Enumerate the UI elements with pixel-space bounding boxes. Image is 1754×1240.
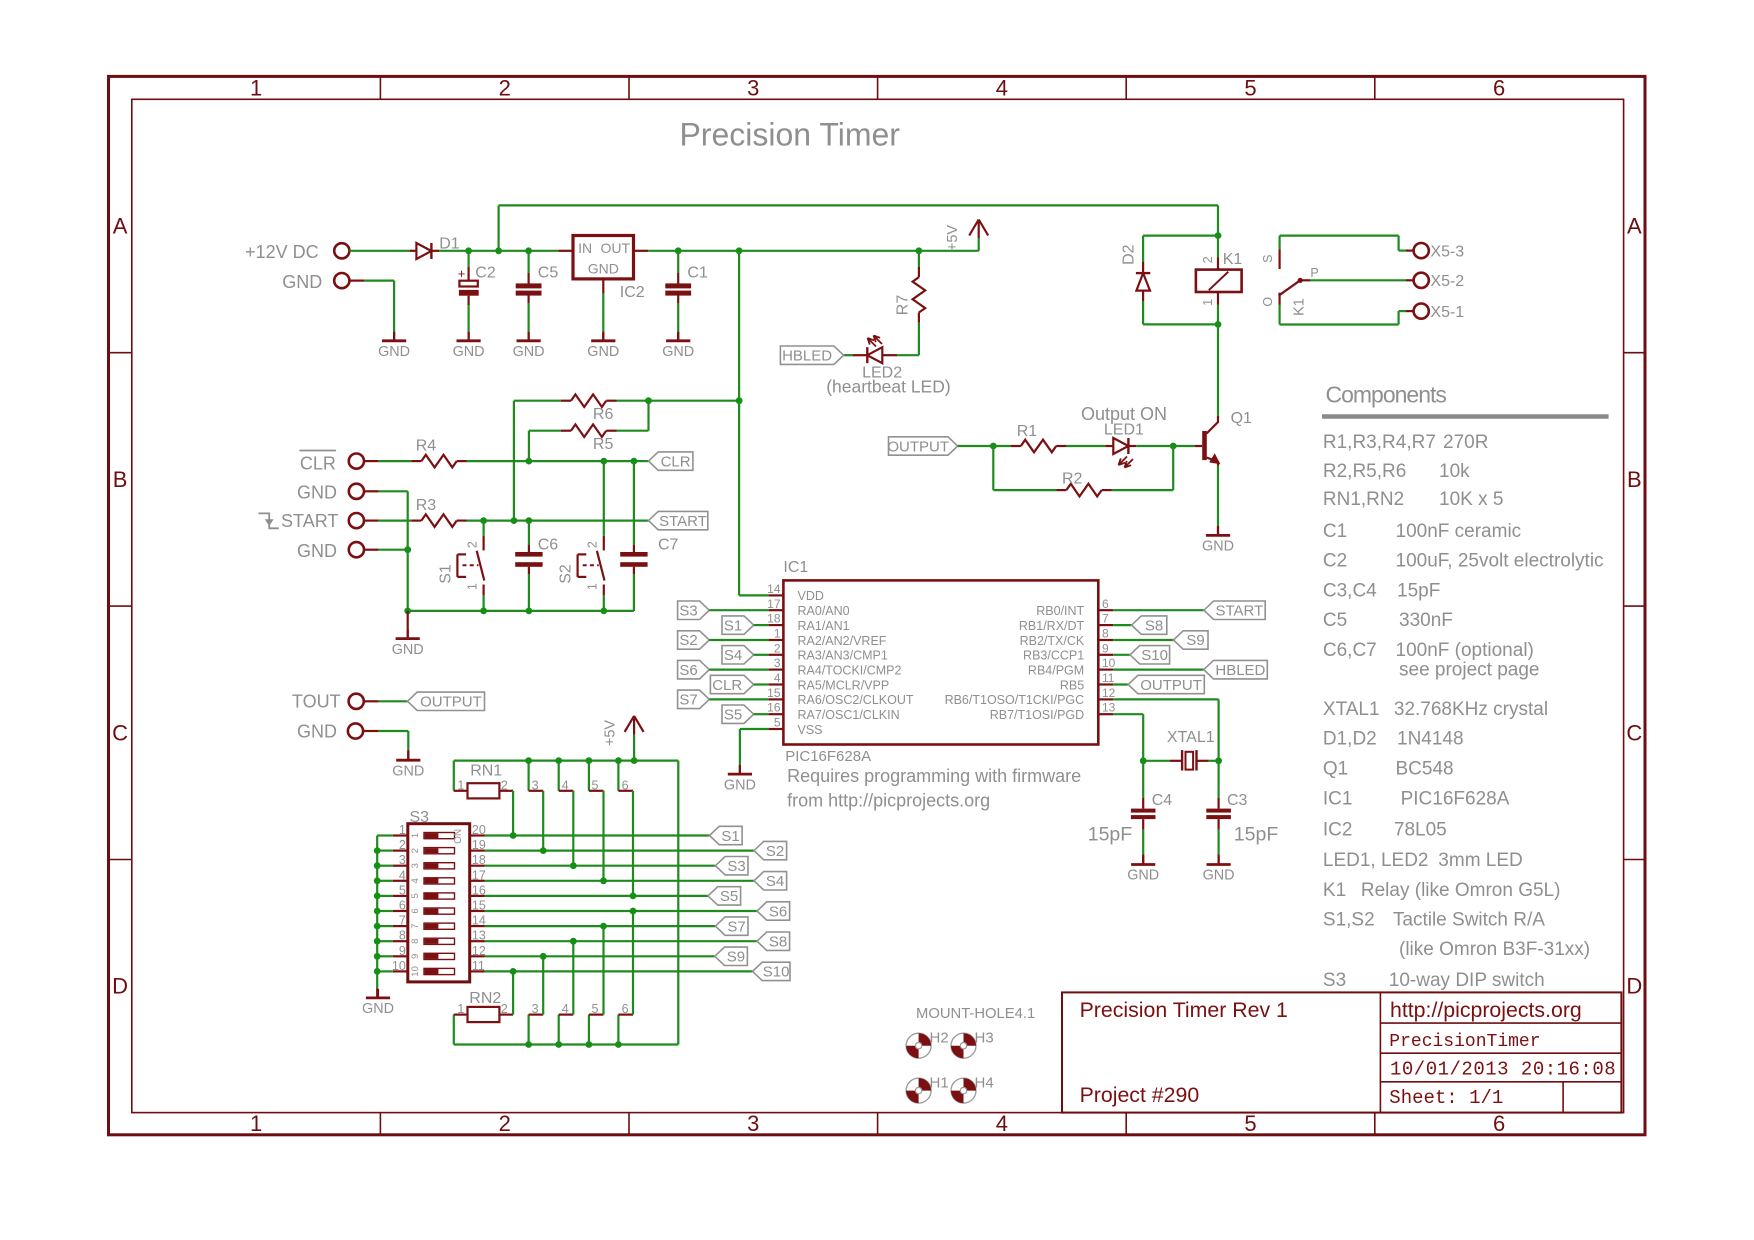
wire GND tout (363, 730, 379, 732)
components list row 78L05 (1323, 819, 1447, 840)
wire D2 loop left upper (1142, 236, 1144, 262)
switch S2 (603, 536, 605, 551)
svg-text:X5-1: X5-1 (1430, 304, 1464, 321)
components list row (like Omron B3F-31xx) (1399, 939, 1590, 960)
svg-text:CLR: CLR (712, 677, 742, 694)
net tag S3 to pin 17 (678, 601, 710, 620)
wire C7 to CLR line (633, 461, 635, 545)
svg-text:PIC16F628A: PIC16F628A (1401, 788, 1510, 809)
net tag OUTPUT at TOUT (408, 692, 485, 710)
svg-text:7: 7 (1102, 612, 1109, 626)
svg-text:C7: C7 (658, 537, 679, 554)
LED LED2 (882, 354, 897, 356)
wire CLR line (467, 460, 529, 462)
svg-text:A: A (113, 214, 128, 239)
svg-text:C2: C2 (1323, 551, 1347, 572)
svg-text:1: 1 (465, 583, 479, 590)
wire VDD into pin 14 (739, 594, 769, 596)
svg-text:S1: S1 (438, 564, 455, 584)
components list row 10K x 5 (1323, 489, 1504, 510)
svg-text:R2,R5,R6: R2,R5,R6 (1323, 461, 1406, 482)
svg-text:9: 9 (410, 954, 421, 959)
svg-text:2: 2 (501, 1002, 508, 1016)
junction RN2 pin5 column (586, 1041, 593, 1048)
pad GND input (334, 273, 349, 288)
svg-text:RB7/T1OSI/PGD: RB7/T1OSI/PGD (990, 708, 1084, 722)
resistor network RN1 (453, 761, 455, 791)
wire LED2 to tag (844, 354, 853, 356)
svg-text:S4: S4 (766, 873, 784, 890)
+5V supply arrow 1 (978, 220, 980, 239)
junction RN1 pin4 column (555, 757, 562, 764)
LED1 emission arrows (1119, 457, 1128, 466)
wire S3 row 4 to tag S4 (485, 880, 755, 882)
diode D1 (410, 250, 416, 252)
components list row 100uF, 25volt electrolytic (1323, 551, 1604, 572)
svg-text:IC1: IC1 (1323, 788, 1353, 809)
junction crystal left (1140, 757, 1147, 764)
svg-text:(like Omron B3F-31xx): (like Omron B3F-31xx) (1399, 939, 1590, 960)
svg-text:S5: S5 (724, 707, 742, 724)
wire relay to Q1 collector (1217, 324, 1219, 415)
svg-text:K1: K1 (1292, 298, 1308, 316)
net tag S8 dip (757, 932, 790, 950)
wire RN2 pin4 jog (558, 1015, 560, 1045)
components list row 10-way DIP switch (1323, 970, 1545, 991)
wire R5 right leg (647, 401, 649, 431)
svg-text:100nF (optional): 100nF (optional) (1396, 640, 1534, 661)
svg-text:START: START (1216, 603, 1264, 620)
frame row letters (112, 214, 1642, 999)
svg-text:S1,S2: S1,S2 (1323, 910, 1375, 931)
svg-text:270R: 270R (1443, 432, 1488, 453)
wire S1 to START line (483, 521, 485, 536)
svg-text:S8: S8 (769, 934, 787, 951)
svg-text:7: 7 (410, 923, 421, 928)
capacitor C3 (1217, 761, 1219, 798)
wire top +12V rail (499, 204, 1218, 206)
title block dividers (1380, 992, 1621, 1112)
svg-text:1: 1 (774, 627, 781, 641)
svg-text:C1: C1 (687, 265, 708, 282)
frame column ticks (380, 76, 1374, 1134)
net tag S10 from pin 9 (1113, 654, 1130, 656)
wire S3 row 8 to tag S8 (485, 940, 758, 942)
svg-text:GND: GND (513, 344, 545, 360)
wire S3 row 1 to tag S1 (485, 834, 710, 836)
svg-text:10-way DIP switch: 10-way DIP switch (1389, 970, 1545, 991)
svg-text:5: 5 (774, 716, 781, 730)
svg-text:RA0/AN0: RA0/AN0 (798, 604, 850, 618)
wire riser to top rail (498, 205, 500, 250)
wire GND pads to rail (364, 490, 379, 492)
svg-text:Precision Timer Rev 1: Precision Timer Rev 1 (1080, 998, 1288, 1022)
svg-text:LED1: LED1 (1104, 422, 1144, 439)
wire S2 to CLR line (603, 461, 605, 536)
svg-text:4: 4 (410, 878, 421, 883)
junction RN1 pin5 column (586, 757, 593, 764)
svg-text:S9: S9 (1186, 632, 1204, 649)
resistor R3 (364, 519, 379, 521)
svg-text:CLR: CLR (300, 454, 336, 474)
junction row S10 (510, 968, 517, 975)
svg-text:4: 4 (996, 1111, 1008, 1136)
mount hole H3 (951, 1033, 976, 1058)
ground symbol Q1 (1217, 526, 1219, 535)
svg-text:S1: S1 (721, 828, 739, 845)
GND wire from input pad (349, 280, 364, 282)
svg-text:3: 3 (747, 76, 759, 101)
wire RN2 pin5 jog (588, 1015, 590, 1045)
pad START input (349, 513, 364, 528)
relay coil K1 (1217, 236, 1219, 258)
svg-text:OUTPUT: OUTPUT (420, 694, 482, 711)
svg-text:1: 1 (410, 833, 421, 838)
IC1 right pin numbers (1102, 597, 1116, 715)
net tag S3 dip (715, 857, 748, 875)
wire S3 left bus (376, 836, 378, 989)
svg-text:2: 2 (586, 541, 600, 548)
svg-text:C2: C2 (475, 265, 496, 282)
wire contact O to X5-1 (1278, 305, 1280, 325)
svg-text:Components: Components (1326, 382, 1447, 408)
svg-text:C5: C5 (1323, 610, 1347, 631)
capacitor C2 electrolytic (468, 251, 470, 267)
svg-text:see project page: see project page (1399, 660, 1540, 681)
diode D2 (1142, 262, 1144, 273)
IC IC1 PIC16F628A body (783, 580, 1098, 744)
svg-text:S10: S10 (763, 964, 790, 981)
junction CLR C7 (631, 458, 638, 465)
svg-text:B: B (1627, 467, 1642, 492)
resistor R1 (993, 445, 1010, 447)
components list row 1N4148 (1323, 729, 1464, 750)
junction row S9 (540, 953, 547, 960)
switch S1 (483, 536, 485, 551)
svg-text:C4: C4 (1152, 792, 1173, 809)
svg-text:RB6/T1OSO/T1CKI/PGC: RB6/T1OSO/T1CKI/PGC (945, 693, 1085, 707)
svg-text:from http://picprojects.org: from http://picprojects.org (787, 791, 990, 811)
svg-text:1: 1 (250, 1111, 262, 1136)
svg-text:1: 1 (1201, 299, 1215, 306)
junction rail C6 (526, 608, 533, 615)
ground symbol IC2 (602, 332, 604, 341)
mount hole H2 (906, 1033, 931, 1058)
svg-text:H1: H1 (930, 1074, 949, 1091)
svg-text:O: O (1261, 297, 1275, 307)
svg-text:11: 11 (1102, 671, 1115, 685)
svg-text:100nF ceramic: 100nF ceramic (1396, 521, 1522, 542)
drawing frame inner border (132, 99, 1624, 1112)
wire RN1 pin4 jog (558, 761, 560, 791)
wire R1 to LED1 (1066, 445, 1105, 447)
junctions S3 left bus (374, 847, 381, 975)
svg-text:D2: D2 (1120, 244, 1137, 265)
svg-text:+12V DC: +12V DC (245, 242, 319, 262)
transistor Q1 (1195, 445, 1203, 447)
ground symbol switch rail (407, 611, 409, 637)
wire S3 row 10 to tag S10 (485, 970, 753, 972)
svg-text:RB1/RX/DT: RB1/RX/DT (1019, 619, 1085, 633)
wire top rail drop to relay (1217, 205, 1219, 235)
wire RN1 pin5 jog (588, 761, 590, 791)
svg-text:ON: ON (453, 829, 464, 844)
wire S3 row 7 to tag S7 (485, 925, 716, 927)
svg-text:IC2: IC2 (620, 284, 645, 301)
svg-text:16: 16 (767, 701, 781, 715)
resistor network RN2 (453, 1015, 455, 1045)
svg-text:R4: R4 (416, 438, 437, 455)
resistor R5 (529, 430, 561, 432)
net tag S6 dip (757, 902, 790, 920)
wire +12V D1 to C2 junction (439, 250, 469, 252)
frame column numbers (250, 76, 1505, 1137)
svg-text:1: 1 (457, 1002, 464, 1016)
components list row Tactile Switch R/A (1323, 910, 1545, 931)
svg-text:CLR: CLR (661, 453, 691, 470)
resistor R6 (514, 400, 561, 402)
svg-text:15: 15 (767, 686, 781, 700)
ground symbol C4 (1142, 856, 1144, 865)
svg-text:GND: GND (297, 722, 337, 742)
svg-text:START: START (281, 511, 338, 531)
svg-text:3: 3 (774, 656, 781, 670)
+5V supply arrow 2 (633, 734, 635, 760)
svg-text:RB5: RB5 (1060, 678, 1084, 692)
svg-text:MOUNT-HOLE4.1: MOUNT-HOLE4.1 (916, 1006, 1035, 1022)
svg-text:S7: S7 (679, 692, 697, 709)
svg-text:XTAL1: XTAL1 (1323, 699, 1380, 720)
wire RN1 pin6 jog (617, 761, 619, 791)
net tag S9 dip (715, 947, 748, 965)
svg-text:4: 4 (774, 671, 781, 685)
S3 left pin stubs (393, 836, 408, 972)
svg-text:(heartbeat LED): (heartbeat LED) (826, 377, 951, 397)
capacitor C4 (1142, 761, 1144, 798)
svg-text:18: 18 (767, 612, 781, 626)
svg-text:GND: GND (588, 261, 619, 277)
junction GND pads (404, 546, 411, 553)
junction row S8 (570, 938, 577, 945)
svg-text:10: 10 (1102, 656, 1116, 670)
wire Q1 emitter to ground (1217, 466, 1219, 527)
svg-text:X5-2: X5-2 (1430, 273, 1464, 290)
wire START line (467, 519, 484, 521)
svg-text:Requires programming with firm: Requires programming with firmware (787, 766, 1081, 786)
svg-text:S3: S3 (1323, 970, 1346, 991)
svg-text:GND: GND (392, 763, 424, 779)
junction at C5 (525, 247, 532, 254)
wire RN1 pin2 to S1 row (512, 791, 514, 836)
components list rule (1322, 414, 1609, 419)
svg-text:2: 2 (465, 541, 479, 548)
svg-text:4: 4 (996, 76, 1008, 101)
svg-text:RN2: RN2 (469, 990, 501, 1007)
wire pin 12 to crystal right (1113, 698, 1219, 700)
wire rail right drop (677, 761, 679, 1045)
ground symbol C2 (468, 332, 470, 341)
LED LED1 (1105, 445, 1113, 447)
svg-text:H3: H3 (975, 1030, 994, 1047)
title block box (1062, 992, 1621, 1112)
wire S3 row 9 to tag S9 (485, 955, 715, 957)
wire VSS to ground (740, 728, 769, 730)
wire GND start pad (364, 549, 379, 551)
svg-text:5: 5 (410, 893, 421, 898)
net tag S2 to pin 1 (678, 631, 710, 649)
junction at C2 (465, 247, 472, 254)
svg-text:3: 3 (747, 1111, 759, 1136)
svg-text:S10: S10 (1141, 647, 1168, 664)
components list row 100nF ceramic (1323, 521, 1521, 542)
svg-text:S7: S7 (727, 918, 745, 935)
svg-text:RB3/CCP1: RB3/CCP1 (1023, 649, 1084, 663)
svg-text:330nF: 330nF (1399, 610, 1453, 631)
svg-text:RA1/AN1: RA1/AN1 (798, 619, 850, 633)
components list row see project page (1399, 660, 1540, 681)
wire RN2 pin6 jog (617, 1015, 619, 1045)
net tag OUTPUT from pin 11 (1113, 683, 1132, 685)
svg-text:9: 9 (1102, 641, 1109, 655)
svg-text:C5: C5 (538, 265, 559, 282)
svg-text:2: 2 (499, 76, 511, 101)
svg-text:C1: C1 (1323, 521, 1347, 542)
svg-text:S9: S9 (727, 949, 745, 966)
wire +5V VDD riser down to IC1 (738, 251, 740, 596)
svg-text:RN1,RN2: RN1,RN2 (1323, 489, 1404, 510)
svg-text:RB0/INT: RB0/INT (1036, 604, 1084, 618)
wire R7 to LED2 (918, 323, 920, 356)
net tag S5 dip (708, 887, 741, 905)
components list row 32.768KHz crystal (1323, 699, 1548, 720)
net tag HBLED from pin 10 (1113, 668, 1204, 670)
svg-text:Sheet: 1/1: Sheet: 1/1 (1389, 1087, 1503, 1109)
svg-text:S2: S2 (558, 564, 575, 584)
capacitor C1 (677, 251, 679, 273)
svg-text:S2: S2 (766, 843, 784, 860)
svg-text:6: 6 (410, 908, 421, 913)
svg-text:RA7/OSC1/CLKIN: RA7/OSC1/CLKIN (798, 708, 900, 722)
mount hole H4 (951, 1078, 976, 1103)
relay contact arm (1279, 280, 1301, 295)
svg-text:K1: K1 (1223, 251, 1243, 268)
svg-text:1N4148: 1N4148 (1397, 729, 1464, 750)
svg-text:R1,R3,R4,R7: R1,R3,R4,R7 (1323, 432, 1436, 453)
components list row 15pF (1323, 581, 1440, 602)
svg-text:10k: 10k (1439, 461, 1470, 482)
ground symbol C3 (1217, 856, 1219, 865)
junction RN2 pin3 column (525, 1041, 532, 1048)
svg-text:BC548: BC548 (1396, 759, 1454, 780)
wire RN1 +5V rail (454, 759, 679, 761)
svg-text:2: 2 (499, 1111, 511, 1136)
svg-text:100uF, 25volt electrolytic: 100uF, 25volt electrolytic (1396, 551, 1604, 572)
svg-text:IN: IN (578, 240, 592, 256)
wire RN1 pin3 jog (527, 761, 529, 791)
net tag S4 dip (754, 872, 787, 890)
IC1 left pin numbers (767, 582, 781, 730)
svg-text:1: 1 (250, 76, 262, 101)
svg-text:C6,C7: C6,C7 (1323, 640, 1377, 661)
svg-text:12: 12 (1102, 686, 1116, 700)
wire LED1 to junction (1136, 445, 1173, 447)
junction START R6 (511, 517, 518, 524)
drawing frame outer border (109, 76, 1646, 1134)
ground symbol input (393, 332, 395, 341)
net tag S1 to pin 18 (722, 616, 754, 634)
IC2 ground pin wire (602, 279, 604, 294)
svg-text:5: 5 (1244, 76, 1256, 101)
svg-text:1: 1 (457, 778, 464, 792)
svg-text:2: 2 (774, 641, 781, 655)
svg-text:RA3/AN3/CMP1: RA3/AN3/CMP1 (798, 649, 888, 663)
wire D2 loop bottom (1143, 323, 1218, 325)
junction RN1 pin3 column (525, 757, 532, 764)
components list row 330nF (1323, 610, 1453, 631)
wire RN2 pin3 jog (527, 1015, 529, 1045)
svg-text:Precision Timer: Precision Timer (679, 117, 900, 153)
resistor R2 bypass (992, 446, 994, 490)
junction rail S1 (480, 608, 487, 615)
net tag S7 to pin 15 (678, 690, 710, 709)
wire D2 loop left lower (1142, 301, 1144, 324)
relay contact S terminal (1278, 250, 1280, 270)
svg-text:GND: GND (392, 642, 424, 658)
svg-text:17: 17 (767, 597, 781, 611)
crystal XTAL1 (1143, 760, 1170, 762)
wire OUTPUT tag to junction (958, 445, 994, 447)
svg-text:R7: R7 (894, 295, 911, 316)
svg-text:C3: C3 (1227, 792, 1248, 809)
wire contact S to X5-3 (1280, 235, 1399, 237)
RN1 pin numbers (457, 778, 628, 792)
svg-text:HBLED: HBLED (782, 348, 832, 365)
svg-text:GND: GND (378, 344, 410, 360)
svg-text:GND: GND (297, 483, 337, 503)
junction row S4 (600, 877, 607, 884)
voltage regulator IC2 78L05 (558, 250, 573, 252)
junction START S1 (480, 517, 487, 524)
net tag S8 from pin 7 (1113, 624, 1132, 626)
wire RN2 pin2 to S10 row (512, 971, 514, 1014)
junction row S6 (630, 908, 637, 915)
net tag S7 dip (715, 917, 748, 935)
wire TOUT to tag (364, 700, 379, 702)
svg-text:78L05: 78L05 (1394, 819, 1447, 840)
svg-text:R1: R1 (1017, 423, 1038, 440)
svg-text:START: START (659, 513, 707, 530)
svg-text:S6: S6 (679, 662, 697, 679)
svg-text:XTAL1: XTAL1 (1167, 729, 1215, 746)
svg-text:D1,D2: D1,D2 (1323, 729, 1377, 750)
pad X5-2 (1414, 273, 1429, 288)
pad GND tout (348, 723, 363, 738)
net tag S5 to pin 16 (722, 705, 754, 723)
wire +5V IC2 OUT to C1 (648, 250, 678, 252)
svg-text:S1: S1 (724, 617, 742, 634)
svg-text:+5V: +5V (945, 225, 961, 252)
wire to C5 junction (499, 250, 529, 252)
svg-text:S3: S3 (679, 603, 697, 620)
components list row PIC16F628A (1323, 788, 1510, 809)
svg-text:Tactile Switch R/A: Tactile Switch R/A (1393, 910, 1545, 931)
junction at C1 (675, 247, 682, 254)
capacitor C6 (528, 545, 530, 552)
junction R6 riser (736, 397, 743, 404)
wire junction to Q1 base (1173, 445, 1194, 447)
svg-text:2: 2 (1201, 256, 1215, 263)
svg-text:GND: GND (297, 541, 337, 561)
